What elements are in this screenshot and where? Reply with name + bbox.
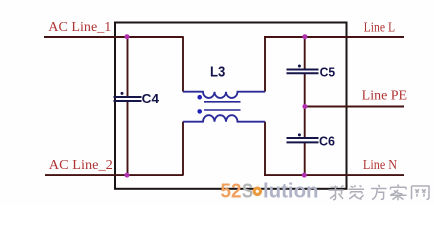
wire top-right: [264, 36, 404, 38]
inductor L3 top winding: [183, 92, 265, 98]
C4 polarity dot: [121, 92, 124, 95]
svg-text:Line PE: Line PE: [362, 87, 407, 102]
svg-text:C6: C6: [319, 134, 335, 148]
L3 phase dot bottom: [197, 109, 202, 114]
junction dot Line PE: [302, 104, 307, 109]
wire bottom-right: [264, 174, 404, 176]
L3 phase dot top: [197, 95, 202, 100]
wire C5 top lead: [304, 36, 306, 69]
wire C4 top lead: [127, 36, 129, 97]
svg-text:Line N: Line N: [363, 157, 397, 172]
wire C4 bottom lead: [127, 101, 129, 176]
svg-text:C5: C5: [320, 65, 336, 79]
inductor L3 bottom winding: [183, 115, 265, 121]
L3 core lines: [204, 101, 241, 103]
watermark Chinese char 1: [329, 186, 344, 200]
svg-text:52: 52: [221, 180, 242, 203]
wire Line PE: [305, 106, 404, 108]
wire C5 bottom lead: [304, 73, 306, 106]
C5 polarity dot: [298, 65, 301, 68]
watermark 52Solution: [221, 180, 319, 203]
watermark Chinese char 3: [371, 185, 387, 200]
watermark o-ring: [252, 187, 262, 197]
wire AC Line_2 bottom-left: [45, 174, 183, 176]
wire riser left-bottom: [182, 122, 184, 176]
svg-text:AC Line_1: AC Line_1: [48, 19, 111, 34]
svg-text:L3: L3: [210, 64, 225, 81]
wire riser right-top: [264, 36, 266, 91]
svg-text:lution: lution: [263, 180, 319, 203]
watermark Chinese char 5: [412, 186, 430, 199]
C6 polarity dot: [298, 133, 301, 136]
wire C6 bottom lead: [304, 142, 306, 175]
watermark Chinese char 2: [349, 185, 365, 199]
svg-text:C4: C4: [142, 92, 159, 106]
capacitor C5: [287, 70, 319, 74]
svg-text:Line L: Line L: [364, 19, 396, 34]
capacitor C6: [287, 138, 319, 142]
junction dot AC Line_2 / C4: [125, 173, 130, 178]
wire riser right-bottom: [264, 122, 266, 176]
watermark Chinese char 4: [390, 185, 407, 201]
capacitor C4: [114, 97, 142, 101]
wire AC Line_1 top-left: [44, 36, 183, 38]
junction dot Line N / C6: [302, 173, 307, 178]
wire C6 top lead: [304, 107, 306, 139]
junction dot AC Line_1 / C4: [125, 34, 130, 39]
wire riser left-top: [182, 36, 184, 91]
svg-text:S: S: [242, 180, 253, 203]
svg-text:AC Line_2: AC Line_2: [49, 157, 113, 172]
enclosure box: [115, 23, 347, 189]
junction dot Line L / C5: [302, 34, 307, 39]
